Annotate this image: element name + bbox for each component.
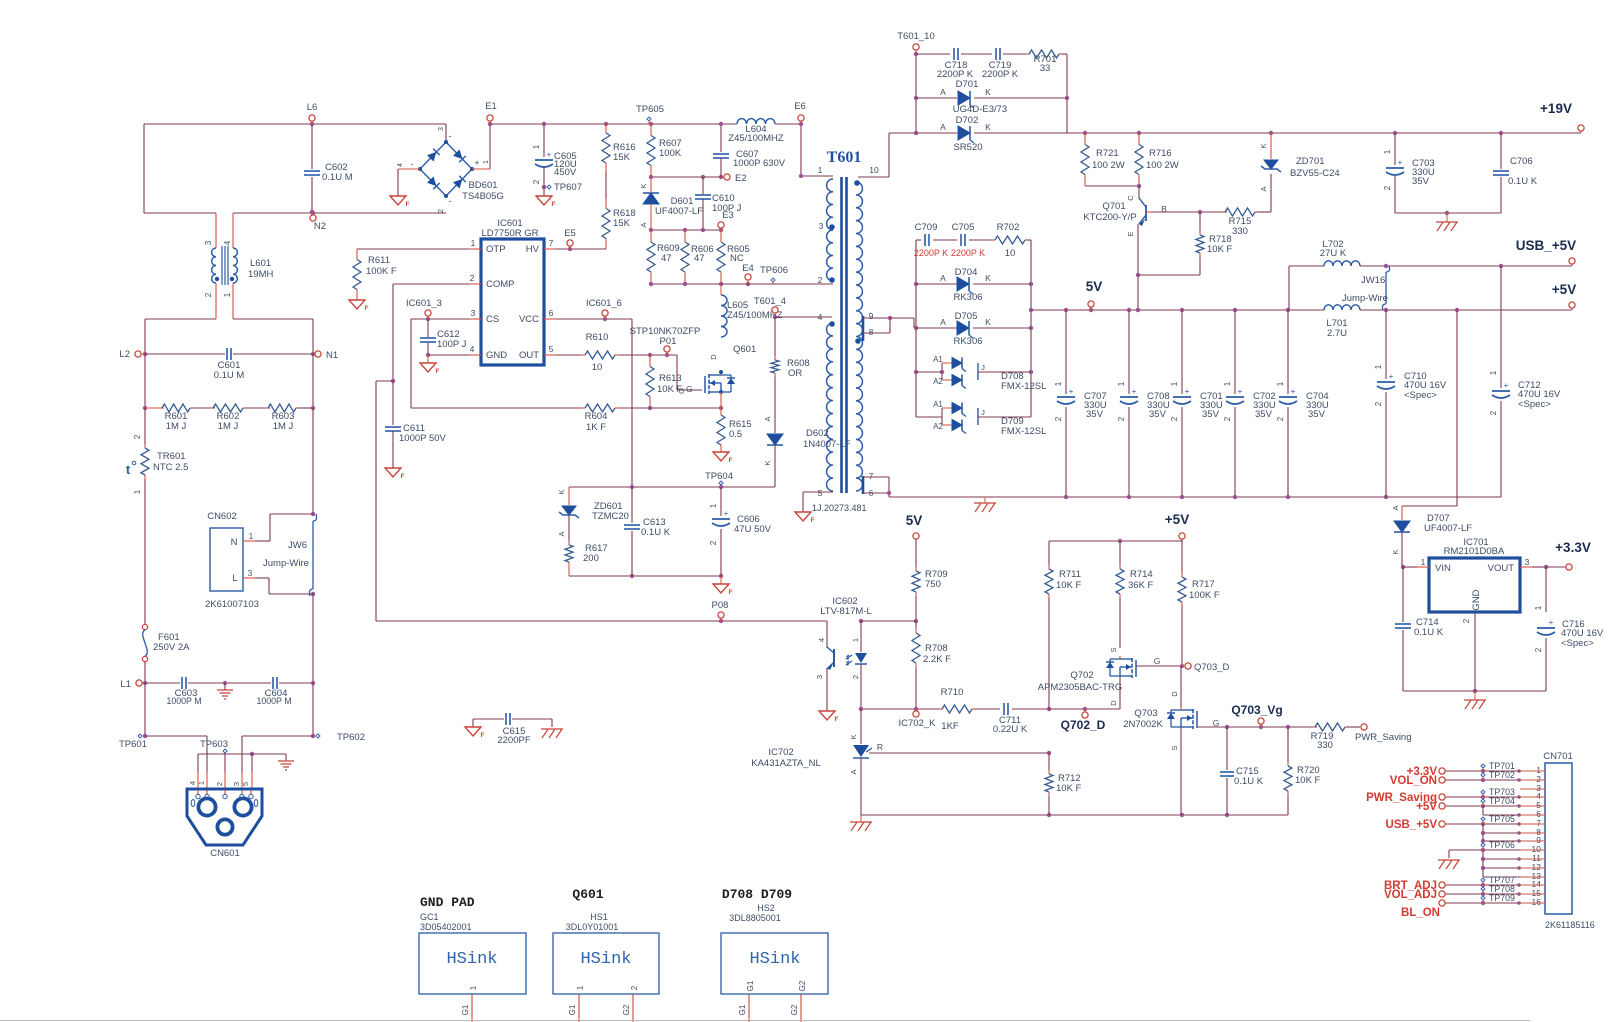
node IC702_K	[913, 711, 919, 717]
svg-text:F: F	[406, 201, 410, 208]
capacitor C703	[1394, 133, 1396, 165]
svg-text:2: 2	[1489, 410, 1498, 415]
svg-text:A2: A2	[933, 377, 943, 386]
svg-text:A: A	[763, 416, 772, 421]
wire T601 pin4	[775, 316, 832, 318]
wire CN701 pin 1	[1442, 770, 1545, 772]
wire CN701 pin 6	[1483, 814, 1545, 816]
resistor R618	[605, 198, 607, 209]
IC IC701 RM2101	[1429, 558, 1520, 612]
svg-text:RM2101D0BA: RM2101D0BA	[1444, 546, 1505, 557]
wire VCC	[544, 318, 556, 320]
svg-text:CN701: CN701	[1543, 751, 1573, 762]
svg-text:1000P M: 1000P M	[166, 696, 201, 706]
svg-text:N: N	[231, 537, 238, 548]
wire P08 line	[376, 620, 827, 622]
svg-text:+3.3V: +3.3V	[1555, 540, 1591, 555]
wire C711 to Q702	[1047, 707, 1051, 711]
svg-text:TP603: TP603	[200, 739, 228, 750]
capacitor C615	[473, 718, 504, 720]
svg-text:3: 3	[815, 675, 824, 679]
svg-text:VCC: VCC	[519, 314, 539, 325]
svg-text:G1: G1	[738, 1004, 747, 1015]
svg-text:2200PF: 2200PF	[497, 735, 530, 746]
svg-text:35V: 35V	[1149, 409, 1167, 420]
svg-text:TP606: TP606	[760, 265, 788, 276]
test point TP602	[311, 734, 315, 738]
svg-text:1M J: 1M J	[166, 421, 187, 432]
capacitor C716	[1545, 567, 1547, 612]
svg-text:1: 1	[576, 985, 585, 990]
svg-text:E6: E6	[794, 101, 806, 112]
svg-text:D705: D705	[955, 311, 978, 322]
svg-text:1: 1	[1117, 381, 1126, 386]
wire GND pin	[428, 354, 469, 356]
svg-text:47: 47	[661, 253, 672, 264]
wire IC701 gnd rail	[1403, 690, 1546, 692]
svg-text:J: J	[981, 408, 985, 417]
wire L601 lower	[145, 318, 216, 320]
wire R709-R708	[915, 596, 917, 621]
svg-text:1KF: 1KF	[941, 721, 959, 732]
svg-text:UF4007-LF: UF4007-LF	[1424, 523, 1472, 534]
svg-text:1: 1	[818, 165, 823, 175]
svg-text:1: 1	[1383, 149, 1392, 154]
svg-text:2: 2	[532, 179, 541, 184]
svg-text:27U K: 27U K	[1320, 248, 1347, 259]
wire USB rail	[1360, 265, 1572, 267]
node N2	[310, 215, 316, 221]
svg-text:E1: E1	[485, 101, 497, 112]
ground chassis CN701	[1438, 860, 1460, 869]
svg-text:CN602: CN602	[207, 511, 237, 522]
resistor R721	[1084, 133, 1086, 145]
svg-text:CN601: CN601	[210, 848, 240, 859]
wire C709-C705	[933, 239, 957, 241]
wire L2 vertical	[144, 354, 146, 408]
node Q702_D	[1082, 712, 1088, 718]
svg-text:R610: R610	[586, 332, 609, 343]
resistor R714	[1119, 541, 1121, 565]
svg-text:2: 2	[630, 985, 639, 990]
ground F R611	[349, 300, 365, 309]
node +5V	[1439, 803, 1445, 809]
wire T601 pin2	[721, 283, 833, 285]
svg-text:2: 2	[1117, 416, 1126, 421]
capacitor C606	[720, 487, 722, 516]
ground chassis C615	[541, 729, 563, 738]
svg-text:5V: 5V	[906, 513, 923, 528]
svg-text:R717: R717	[1192, 579, 1215, 590]
resistor R710	[939, 708, 942, 710]
svg-text:LD7750R GR: LD7750R GR	[481, 228, 538, 239]
wire CN701 pin stubs red	[1521, 770, 1545, 772]
node N1	[315, 351, 321, 357]
svg-text:1: 1	[1421, 557, 1426, 567]
svg-text:35V: 35V	[1202, 409, 1220, 420]
svg-text:IC601_3: IC601_3	[406, 298, 442, 309]
svg-text:Q702_D: Q702_D	[1061, 718, 1106, 732]
wire snubber left	[915, 54, 917, 133]
svg-text:3: 3	[232, 782, 241, 786]
svg-text:OR: OR	[788, 368, 802, 379]
wire IC702 R pin	[869, 752, 1049, 754]
svg-text:A1: A1	[933, 400, 943, 409]
ground F C615	[465, 727, 481, 736]
svg-text:E: E	[1126, 231, 1135, 236]
svg-text:GND: GND	[486, 350, 507, 361]
svg-text:19MH: 19MH	[248, 269, 273, 280]
diode D602	[774, 377, 776, 433]
ground F C612	[427, 355, 429, 363]
svg-text:G: G	[686, 384, 693, 394]
resistor R606	[684, 230, 686, 242]
svg-text:G2: G2	[622, 1004, 631, 1015]
capacitor C702	[1234, 310, 1236, 394]
capacitor C714	[1402, 567, 1404, 622]
node E3	[718, 222, 724, 228]
svg-text:R702: R702	[997, 222, 1020, 233]
resistor R610	[544, 354, 556, 356]
svg-text:1: 1	[197, 781, 206, 785]
svg-text:G: G	[1213, 718, 1220, 728]
svg-text:ZD701: ZD701	[1296, 156, 1325, 167]
svg-text:SR520: SR520	[953, 142, 982, 153]
wire +5V net	[1179, 533, 1185, 539]
svg-text:P08: P08	[712, 600, 729, 611]
svg-text:G2: G2	[790, 1004, 799, 1015]
svg-text:R714: R714	[1130, 569, 1153, 580]
node E5	[567, 240, 573, 246]
svg-text:GND: GND	[1471, 589, 1482, 610]
svg-text:R710: R710	[941, 687, 964, 698]
svg-text:4: 4	[223, 240, 232, 245]
node E1	[487, 115, 493, 121]
svg-text:750: 750	[925, 579, 941, 590]
svg-text:100P J: 100P J	[437, 339, 467, 350]
wire main HV rail	[490, 123, 737, 125]
svg-text:1: 1	[1223, 381, 1232, 386]
capacitor C715	[1226, 727, 1228, 770]
svg-text:BD601: BD601	[468, 180, 497, 191]
svg-text:0.1U K: 0.1U K	[641, 527, 671, 538]
transistor Q702 MOSFET	[1135, 660, 1137, 677]
inductor L605	[721, 295, 727, 337]
svg-text:J: J	[981, 363, 985, 372]
resistor R709	[915, 567, 917, 571]
svg-text:2: 2	[851, 675, 860, 679]
node USB_+5V	[1439, 821, 1445, 827]
svg-text:1: 1	[532, 144, 541, 149]
svg-text:A: A	[849, 769, 858, 774]
svg-text:+5V: +5V	[1552, 282, 1576, 297]
svg-text:5: 5	[549, 344, 554, 354]
svg-text:+: +	[1549, 618, 1554, 627]
wire CN701 pin 3 stub	[1520, 788, 1545, 790]
svg-text:IC601_6: IC601_6	[586, 298, 622, 309]
wire T601 pin5	[803, 491, 833, 493]
resistor R711	[1048, 541, 1050, 565]
wire pin2 row	[651, 283, 816, 285]
wire CS loop	[411, 318, 469, 320]
resistor R717	[1181, 541, 1183, 573]
svg-text:33: 33	[1040, 63, 1051, 74]
svg-text:5V: 5V	[1086, 279, 1103, 294]
test point TP604	[719, 481, 723, 485]
wire fuse to L1	[144, 662, 146, 683]
svg-text:100K F: 100K F	[366, 266, 397, 277]
svg-text:2: 2	[1170, 416, 1179, 421]
svg-text:Z45/100MHZ: Z45/100MHZ	[728, 133, 784, 144]
test point TP702	[1481, 773, 1485, 777]
capacitor C603	[145, 682, 180, 684]
ground chassis rail	[984, 497, 986, 503]
svg-text:250V 2A: 250V 2A	[153, 642, 190, 653]
transistor Q703 MOSFET	[1180, 666, 1182, 707]
svg-text:2: 2	[1462, 618, 1471, 623]
svg-text:10K F: 10K F	[1207, 244, 1233, 255]
svg-text:C706: C706	[1510, 156, 1533, 167]
wire E6 down	[800, 124, 802, 176]
svg-text:47: 47	[694, 253, 705, 264]
svg-text:200: 200	[583, 553, 599, 564]
svg-text:+: +	[1504, 381, 1509, 390]
wire R604 row	[411, 407, 580, 409]
svg-text:0.1U K: 0.1U K	[1414, 627, 1444, 638]
wire +19V rail	[1067, 132, 1581, 134]
svg-text:47U 50V: 47U 50V	[734, 524, 772, 535]
wire E3 row	[651, 229, 721, 231]
svg-text:E4: E4	[742, 263, 754, 274]
svg-text:1M J: 1M J	[273, 421, 294, 432]
wire CN701 pin 13	[1483, 876, 1545, 878]
heatsink GC1 box	[419, 933, 526, 994]
svg-text:1K F: 1K F	[586, 422, 606, 433]
svg-text:1: 1	[1276, 381, 1285, 386]
svg-text:K: K	[849, 734, 858, 739]
resistor R615	[720, 408, 722, 415]
capacitor C710	[1385, 310, 1387, 379]
svg-text:G: G	[1154, 656, 1161, 666]
capacitor C707	[1065, 310, 1067, 394]
svg-text:R611: R611	[368, 255, 390, 266]
page frame bottom	[0, 1020, 1530, 1022]
svg-text:9: 9	[869, 311, 874, 321]
wire N1 vertical	[312, 354, 314, 408]
wire rect left vertical	[915, 240, 917, 417]
svg-text:K: K	[1391, 549, 1400, 554]
fuse F601	[142, 624, 147, 629]
svg-text:7: 7	[549, 238, 554, 248]
svg-text:-: -	[411, 159, 414, 169]
svg-text:F: F	[811, 517, 815, 524]
wire CN701 pin 7	[1442, 823, 1545, 825]
svg-text:+: +	[1132, 387, 1137, 396]
svg-text:L2: L2	[119, 349, 130, 360]
wire C718-C719	[961, 53, 992, 55]
svg-text:GC1: GC1	[420, 912, 439, 922]
capacitor C610	[702, 177, 704, 194]
svg-text:D704: D704	[955, 267, 978, 278]
capacitor C712	[1500, 266, 1502, 388]
node USB_+5V	[1569, 258, 1575, 264]
wire R601-R602	[192, 407, 215, 409]
inductor L702	[1324, 261, 1360, 266]
svg-text:A: A	[940, 273, 946, 283]
svg-text:1: 1	[469, 985, 478, 990]
test point TP705	[1481, 817, 1485, 821]
wire Q702 gate	[1136, 665, 1182, 667]
svg-text:HSink: HSink	[446, 950, 497, 969]
svg-text:2: 2	[1276, 416, 1285, 421]
svg-text:<Spec>: <Spec>	[1404, 390, 1437, 401]
resistor R702	[969, 239, 995, 241]
svg-text:D708 D709: D708 D709	[722, 887, 792, 902]
connector CN601	[187, 789, 262, 845]
svg-text:NTC 2.5: NTC 2.5	[153, 462, 188, 473]
capacitor C613	[624, 524, 640, 526]
svg-text:VOUT: VOUT	[1488, 563, 1515, 574]
svg-text:K: K	[1259, 143, 1268, 148]
svg-text:R708: R708	[925, 643, 948, 654]
zener ZD701	[1270, 174, 1272, 212]
svg-text:R711: R711	[1059, 569, 1081, 580]
wire R721/R716 bottoms	[1085, 185, 1139, 187]
svg-text:2200P K: 2200P K	[982, 69, 1019, 80]
svg-text:5: 5	[241, 782, 250, 786]
capacitor C711	[975, 708, 1000, 710]
svg-text:1: 1	[1534, 605, 1543, 610]
svg-text:2: 2	[204, 292, 213, 297]
svg-text:2: 2	[1534, 647, 1543, 652]
ground bars C603	[224, 683, 226, 690]
resistor R607	[649, 122, 653, 126]
resistor R613	[649, 355, 651, 367]
dual diode D708	[941, 363, 943, 380]
svg-text:TP704: TP704	[1489, 796, 1515, 806]
capacitor C704	[1287, 310, 1289, 394]
svg-text:+: +	[1291, 387, 1296, 396]
svg-text:TP607: TP607	[554, 182, 582, 193]
svg-text:K: K	[985, 273, 991, 283]
svg-text:VIN: VIN	[1435, 563, 1451, 574]
svg-text:1: 1	[483, 160, 490, 164]
wire snubber right	[1066, 54, 1068, 133]
wire 5V rail	[1031, 309, 1324, 311]
resistor R609	[650, 230, 652, 242]
svg-text:3DL0Y01001: 3DL0Y01001	[566, 922, 619, 932]
resistor R715	[1223, 211, 1225, 213]
svg-text:E3: E3	[722, 210, 734, 221]
capacitor C607	[720, 124, 722, 152]
wire rect right vertical	[1030, 240, 1032, 417]
svg-text:HSink: HSink	[749, 950, 800, 969]
svg-text:Q701: Q701	[1102, 201, 1125, 212]
svg-text:3D05402001: 3D05402001	[420, 922, 472, 932]
test point TP706	[1481, 843, 1485, 847]
svg-text:TR601: TR601	[157, 451, 186, 462]
wire USB riser	[1288, 266, 1290, 310]
resistor R616	[604, 122, 608, 126]
svg-text:35V: 35V	[1412, 176, 1430, 187]
node E2	[724, 174, 730, 180]
wire CN701 pin 11	[1483, 858, 1545, 860]
node VOL_ON	[1439, 777, 1445, 783]
svg-text:2.7U: 2.7U	[1327, 328, 1347, 339]
svg-text:IC702: IC702	[768, 747, 793, 758]
svg-text:BZV55-C24: BZV55-C24	[1290, 168, 1340, 179]
svg-text:A: A	[557, 531, 566, 536]
inductor L604	[737, 119, 775, 124]
svg-text:A: A	[1259, 186, 1268, 191]
svg-text:PWR_Saving: PWR_Saving	[1355, 732, 1412, 743]
svg-text:F: F	[729, 457, 733, 464]
svg-text:RK306: RK306	[953, 336, 982, 347]
svg-text:4: 4	[470, 344, 475, 354]
resistor R602	[211, 407, 213, 409]
svg-text:L601: L601	[250, 258, 271, 269]
wire TR601 to fuse	[144, 479, 146, 624]
svg-text:K: K	[985, 122, 991, 132]
svg-text:Q703: Q703	[1134, 708, 1157, 719]
svg-text:15K: 15K	[613, 218, 631, 229]
svg-text:HV: HV	[526, 244, 540, 255]
svg-text:COMP: COMP	[486, 279, 515, 290]
svg-text:JW16: JW16	[1361, 275, 1385, 286]
wire CN701 pin 10	[1483, 849, 1545, 851]
svg-text:1000P 630V: 1000P 630V	[733, 158, 786, 169]
capacitor C604	[272, 677, 274, 689]
svg-text:1J.20273.481: 1J.20273.481	[812, 503, 867, 513]
wire CN701 pin 8	[1483, 832, 1545, 834]
capacitor C612	[427, 319, 429, 337]
svg-text:1: 1	[1170, 381, 1179, 386]
node Q703_D	[1185, 663, 1191, 669]
diode D705	[916, 327, 957, 329]
ground F BD601	[390, 196, 406, 205]
resistor R720	[1287, 727, 1289, 762]
ground F C611	[385, 468, 401, 477]
svg-text:3: 3	[819, 221, 824, 231]
wire C703/C706 gnd	[1395, 212, 1501, 214]
svg-text:2: 2	[470, 273, 475, 283]
svg-text:TP709: TP709	[1489, 893, 1515, 903]
svg-text:1: 1	[1054, 381, 1063, 386]
svg-text:F: F	[835, 716, 839, 723]
svg-text:Jump-Wire: Jump-Wire	[263, 558, 309, 569]
ground F C605	[543, 187, 545, 196]
svg-text:2: 2	[709, 540, 718, 545]
wire C613 row	[569, 575, 721, 577]
wire T601 pin10	[858, 176, 889, 178]
node +5V right	[1569, 302, 1575, 308]
svg-text:D: D	[709, 354, 718, 360]
wire COMP	[393, 283, 469, 285]
resistor R701	[1003, 53, 1030, 55]
svg-text:2200P K: 2200P K	[951, 248, 985, 258]
svg-text:STP10NK70ZFP: STP10NK70ZFP	[630, 326, 701, 337]
svg-text:R604: R604	[585, 411, 608, 422]
jumper JW16	[1382, 266, 1389, 310]
capacitor C601	[145, 353, 225, 355]
node PWR_Saving	[1361, 724, 1367, 730]
node 5V mid	[1088, 301, 1094, 307]
node BRT_ADJ	[1439, 882, 1445, 888]
svg-text:4: 4	[188, 781, 197, 785]
svg-text:K: K	[639, 183, 648, 188]
svg-text:0.5: 0.5	[729, 429, 742, 440]
wire +5V rail right	[1360, 309, 1572, 311]
